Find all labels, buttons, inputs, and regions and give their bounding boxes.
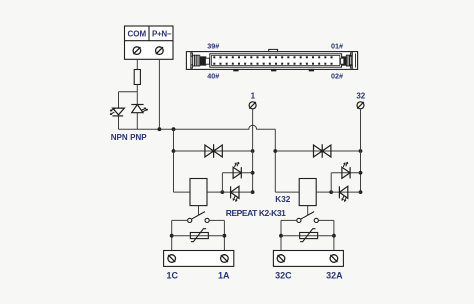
junction terminal line / coil line K32	[359, 190, 363, 194]
junction terminal line / upper LED K1	[251, 171, 255, 175]
wire coil K1 to LED node	[207, 191, 222, 193]
contact throw K1	[205, 218, 209, 222]
label PNP	[130, 133, 147, 142]
label P+N-	[152, 30, 172, 39]
wire relay K1 actuator link	[198, 206, 200, 216]
wire lower LED line K1	[222, 191, 252, 193]
LED PNP (D2)	[131, 105, 148, 113]
relay coil K1	[190, 179, 207, 206]
label 1C	[167, 271, 179, 281]
svg-text:1A: 1A	[218, 271, 230, 281]
wire upper LED line K32	[331, 172, 360, 174]
status LED lower K1	[231, 186, 239, 201]
wire contact right drop K32	[333, 220, 335, 250]
svg-text:01#: 01#	[331, 41, 343, 50]
screw terminal P+N-	[156, 47, 164, 55]
junction coil line / LED jog K1	[221, 190, 225, 194]
wire varistor branch K1	[172, 235, 225, 237]
junction terminal line / coil line K1	[251, 190, 255, 194]
wire COM screw to resistor	[136, 59, 138, 69]
wire supply drop to K32 coil	[274, 129, 276, 192]
label 1A	[218, 271, 230, 281]
wire NPN LED branch lower	[118, 116, 120, 129]
connector J1 inner shroud	[210, 54, 342, 67]
wire contact left drop K1	[171, 220, 173, 250]
junction suppressor / terminal line K32	[359, 149, 363, 153]
contact pivot K32	[297, 218, 301, 222]
wire LED jog vertical K1	[221, 173, 223, 192]
LED NPN (D1)	[110, 108, 125, 116]
pin label 02#	[331, 72, 343, 81]
svg-text:02#: 02#	[331, 72, 343, 81]
junction drop / suppressor branch K1	[172, 149, 176, 153]
output terminal block K1	[164, 251, 234, 267]
terminal 32	[357, 102, 364, 109]
wire supply rail with hop over terminal 1 line	[119, 125, 276, 129]
junction varistor left K1	[170, 234, 174, 238]
bidirectional suppressor diode K32	[314, 144, 331, 158]
relay contact arm K32	[301, 212, 315, 220]
wire PNP LED branch lower	[136, 113, 138, 130]
label K32	[275, 195, 290, 204]
wire terminal 1 down	[252, 109, 254, 192]
label REPEAT K2-K31	[226, 208, 286, 218]
junction varistor right K32	[332, 234, 336, 238]
wire varistor branch K32	[281, 235, 334, 237]
wire upper LED line K1	[222, 172, 252, 174]
pin label 01#	[331, 41, 343, 50]
svg-text:32C: 32C	[275, 271, 292, 281]
wire NPN LED branch upper	[118, 92, 120, 108]
terminal 1	[249, 102, 256, 109]
junction varistor right K1	[223, 234, 227, 238]
wire drop to coil K32	[275, 191, 299, 193]
wire contact right stub K1	[209, 219, 224, 221]
label 32C	[275, 271, 292, 281]
contact throw K32	[314, 218, 318, 222]
svg-text:P+N−: P+N−	[152, 30, 172, 39]
svg-text:1C: 1C	[167, 271, 179, 281]
svg-text:39#: 39#	[207, 41, 219, 50]
label 32	[356, 91, 365, 100]
wire LED branch top	[119, 91, 138, 93]
output terminal block K32	[273, 251, 343, 267]
bidirectional suppressor diode K1	[205, 144, 222, 158]
wire suppressor branch K1	[174, 150, 253, 152]
label 32A	[326, 271, 343, 281]
svg-text:32A: 32A	[326, 271, 343, 281]
label COM	[127, 30, 146, 39]
pin label 40#	[207, 72, 219, 81]
wire coil K32 to LED node	[316, 191, 331, 193]
junction rail / K1 drop	[172, 127, 176, 131]
junction coil line / LED jog K32	[329, 190, 333, 194]
wire contact right stub K32	[318, 219, 334, 221]
screw terminal 1A	[221, 255, 229, 263]
svg-text:REPEAT K2-K31: REPEAT K2-K31	[226, 208, 286, 218]
relay contact arm K1	[191, 212, 205, 220]
wire lower LED line K32	[331, 191, 360, 193]
svg-text:COM: COM	[127, 30, 146, 39]
contact pivot K1	[188, 218, 192, 222]
label 1	[251, 91, 256, 100]
svg-text:40#: 40#	[207, 72, 219, 81]
svg-text:PNP: PNP	[130, 133, 147, 142]
wire contact right drop K1	[223, 220, 225, 250]
wire LED jog vertical K32	[330, 173, 332, 192]
wire terminal 32 down	[360, 109, 362, 192]
status LED lower K32	[339, 186, 347, 201]
junction rail / P+N- line	[158, 127, 162, 131]
wire contact left stub K1	[172, 219, 188, 221]
svg-text:1: 1	[251, 91, 256, 100]
varistor RV K1	[190, 229, 208, 242]
connector J1 body	[186, 52, 357, 70]
pin label 39#	[207, 41, 219, 50]
resistor R1	[134, 70, 140, 85]
wire contact left stub K32	[281, 219, 297, 221]
wire resistor to LED branch	[136, 85, 138, 105]
wire relay K32 actuator link	[307, 206, 309, 216]
svg-text:NPN: NPN	[111, 133, 128, 142]
connector J1 feet	[234, 69, 314, 71]
junction drop / suppressor branch K32	[273, 149, 277, 153]
svg-text:32: 32	[356, 91, 365, 100]
connector J1 right latch	[341, 52, 356, 70]
connector J1 pins (2 x 20)	[213, 56, 332, 64]
screw terminal COM	[133, 47, 141, 55]
screw terminal 32C	[277, 255, 285, 263]
connector J1 left latch	[191, 52, 210, 70]
connector J1 top key nub	[269, 49, 278, 51]
wire supply drop to K1 coil	[173, 129, 175, 192]
wire suppressor branch K32	[275, 150, 360, 152]
wire P+N- terminal down to rail	[158, 59, 160, 129]
wire contact left drop K32	[280, 220, 282, 250]
varistor RV K32	[300, 229, 318, 242]
junction suppressor / terminal line K1	[251, 149, 255, 153]
status LED upper K1	[233, 162, 241, 179]
label NPN	[111, 133, 128, 142]
screw terminal 32A	[330, 255, 338, 263]
junction terminal line / upper LED K32	[359, 171, 363, 175]
screw terminal 1C	[168, 255, 176, 263]
svg-text:K32: K32	[275, 195, 290, 204]
wire drop to coil K1	[174, 191, 191, 193]
status LED upper K32	[342, 162, 350, 179]
terminal block TB1 outline	[125, 26, 174, 59]
junction varistor left K32	[279, 234, 283, 238]
relay coil K32	[299, 179, 316, 206]
